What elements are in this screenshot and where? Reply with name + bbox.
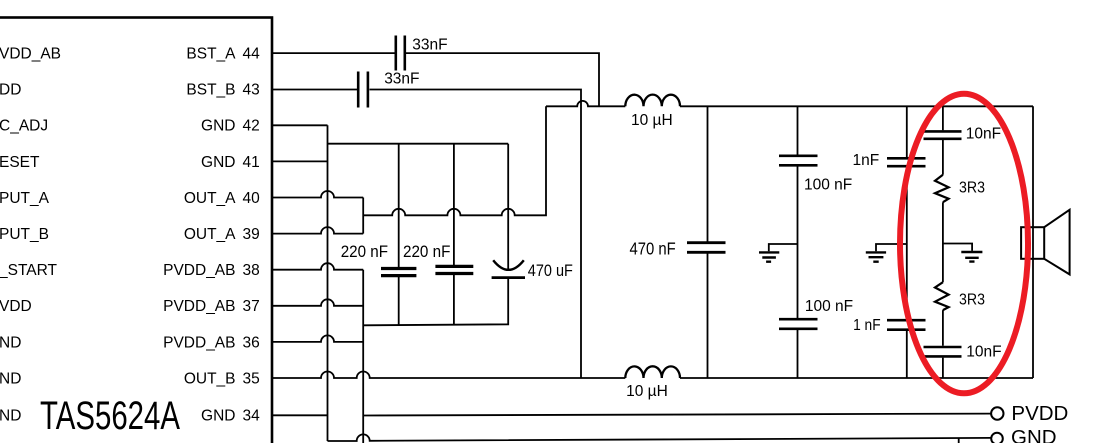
wire decoupling bank top rail (328, 143, 509, 145)
wire C1 right to OUT_A rail riser (405, 53, 599, 106)
svg-text:PVDD: PVDD (1011, 402, 1068, 425)
wire OUT_A rail after inductor L1 (680, 105, 1033, 107)
red highlight ellipse (900, 94, 1028, 394)
capacitor C9 1nF top (887, 158, 926, 166)
svg-text:VDD_AB: VDD_AB (0, 46, 61, 63)
svg-text:C_ADJ: C_ADJ (0, 118, 48, 135)
svg-text:PVDD_AB: PVDD_AB (163, 298, 235, 315)
wire 100nF column (797, 106, 799, 378)
svg-text:VDD: VDD (0, 298, 32, 315)
svg-text:220 nF: 220 nF (403, 242, 450, 261)
svg-text:34: 34 (243, 407, 261, 424)
svg-text:GND: GND (201, 407, 235, 424)
svg-text:10 µH: 10 µH (631, 112, 673, 129)
wire speaker right vertical (1032, 106, 1034, 378)
bus C PVDD vertical (362, 270, 364, 443)
wire pin 42 GND to bus A (273, 124, 328, 126)
svg-text:10 µH: 10 µH (626, 383, 668, 400)
svg-text:GND: GND (1011, 426, 1057, 443)
IC U1 TAS5624A body (0, 18, 272, 443)
wire pin 40 OUT_A with hop over bus A (273, 191, 363, 197)
wire ground tap G3 (943, 244, 972, 251)
svg-text:10nF: 10nF (966, 344, 1001, 361)
capacitor C6 470 nF (687, 243, 726, 253)
svg-text:38: 38 (243, 262, 260, 279)
svg-text:100 nF: 100 nF (805, 298, 853, 315)
wire C5 column 470uF (507, 144, 509, 270)
svg-text:220 nF: 220 nF (341, 242, 388, 261)
wire ground tap G1 (769, 244, 798, 251)
svg-text:470 nF: 470 nF (630, 238, 676, 258)
wire pin 38 PVDD_AB with hop over bus A (273, 263, 363, 270)
svg-text:36: 36 (243, 334, 260, 351)
svg-text:ND: ND (0, 370, 21, 387)
capacitor C4 220nF (435, 266, 473, 273)
svg-text:PVDD_AB: PVDD_AB (163, 334, 235, 351)
wire pin 44 BST_A to C1 (273, 52, 395, 54)
ground G2 (866, 252, 886, 261)
capacitor C3 220nF (381, 269, 416, 276)
svg-text:PUT_A: PUT_A (0, 190, 50, 207)
svg-text:GND: GND (201, 118, 235, 135)
capacitor C12 10nF bottom (924, 347, 962, 356)
svg-text:3R3: 3R3 (959, 180, 985, 197)
capacitor C10 1nF bottom (887, 320, 926, 330)
svg-text:PVDD_AB: PVDD_AB (163, 262, 235, 279)
capacitor C11 10nF top (924, 131, 962, 138)
wire pin 39 OUT_A with hop over bus A (273, 227, 363, 233)
svg-text:DD: DD (0, 82, 21, 99)
bus A GND vertical (327, 125, 329, 441)
wire OUT_A tap with hops over capacitor columns (363, 106, 546, 215)
wire C3 column 220nF (398, 144, 400, 325)
inductor L2 10uH (625, 366, 680, 378)
svg-text:ND: ND (0, 407, 21, 424)
wire GND line with hop over bus C (328, 434, 992, 441)
svg-text:44: 44 (243, 46, 261, 63)
wire pin 36 PVDD_AB with hop over bus A (273, 335, 363, 341)
inductor L1 10uH (625, 95, 680, 107)
wire pin 35 OUT_B rail with hops over bus A and bus C (273, 372, 625, 379)
svg-text:_START: _START (0, 262, 58, 279)
svg-text:33nF: 33nF (412, 37, 447, 54)
svg-text:33nF: 33nF (384, 71, 419, 88)
svg-text:43: 43 (243, 82, 260, 99)
svg-text:41: 41 (243, 154, 260, 171)
wire stub below GND line (958, 439, 960, 443)
capacitor C5 470uF polarized (493, 260, 524, 270)
ground G3 (961, 252, 982, 262)
svg-text:10nF: 10nF (966, 126, 1001, 143)
capacitor C8 100 nF bottom (779, 319, 818, 329)
capacitor C1 33nF (BST_A) (396, 36, 405, 71)
svg-text:42: 42 (243, 118, 260, 135)
svg-text:OUT_B: OUT_B (184, 370, 236, 387)
svg-text:40: 40 (243, 190, 261, 207)
wire pin 37 PVDD_AB with hop over bus A (273, 299, 363, 306)
resistor R1 3R3 top (935, 175, 949, 202)
wire OUT_A rail with hop over BST_B wire (546, 101, 625, 106)
svg-text:39: 39 (243, 226, 260, 243)
capacitor C7 100 nF top (779, 156, 818, 166)
wire 470nF column (707, 106, 709, 378)
svg-text:ND: ND (0, 334, 21, 351)
capacitor C2 33nF (BST_B) (358, 72, 368, 108)
wire 1nF column (906, 106, 908, 378)
ground G1 (759, 252, 779, 261)
svg-text:BST_B: BST_B (186, 82, 235, 99)
wire C4 column 220nF (453, 144, 455, 325)
bus B OUT_A vertical (362, 198, 364, 234)
wire pin 43 BST_B to C2 (273, 89, 357, 91)
svg-text:100 nF: 100 nF (804, 177, 852, 194)
wire 10nF 3R3 snubber column (942, 106, 944, 378)
svg-text:BST_A: BST_A (186, 46, 236, 63)
svg-text:3R3: 3R3 (959, 292, 985, 309)
speaker LS1 (1021, 210, 1070, 275)
wire PVDD line (363, 414, 991, 416)
svg-text:37: 37 (243, 298, 260, 315)
terminal PVDD (991, 407, 1003, 419)
wire pin 34 GND to bus A (273, 414, 328, 416)
svg-text:TAS5624A: TAS5624A (40, 394, 180, 438)
wire OUT_B rail after inductor L2 (680, 377, 1033, 379)
wire ground tap G2 (876, 244, 907, 251)
terminal GND (991, 433, 1003, 443)
resistor R2 3R3 bottom (935, 282, 949, 310)
svg-text:1 nF: 1 nF (853, 317, 881, 334)
svg-text:OUT_A: OUT_A (184, 190, 236, 207)
svg-text:470 uF: 470 uF (528, 261, 573, 280)
svg-text:PUT_B: PUT_B (0, 226, 49, 243)
svg-text:1nF: 1nF (853, 152, 880, 169)
wire C2 right and down to OUT_B rail (370, 90, 582, 379)
svg-text:GND: GND (201, 154, 235, 171)
svg-text:ESET: ESET (0, 154, 40, 171)
wire decoupling bank bottom rail (363, 279, 508, 326)
svg-text:OUT_A: OUT_A (184, 226, 236, 243)
wire pin 41 GND to bus A (273, 160, 328, 162)
svg-text:35: 35 (243, 370, 260, 387)
